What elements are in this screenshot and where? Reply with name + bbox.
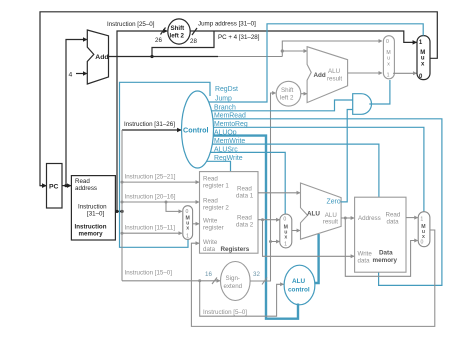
- svg-text:Jump: Jump: [215, 96, 232, 103]
- svg-text:Instruction [15–0]: Instruction [15–0]: [125, 270, 173, 277]
- svg-text:MemRead: MemRead: [214, 113, 246, 120]
- oval: Control unit: [182, 91, 214, 168]
- wire: branch adder output to branch mux input 1: [348, 72, 382, 74]
- svg-text:Add: Add: [314, 72, 326, 79]
- control signal: RegWrite: [207, 161, 231, 171]
- svg-text:RegWrite: RegWrite: [214, 155, 243, 162]
- svg-text:Shift: Shift: [171, 25, 185, 32]
- control signal: ALUOp (2-bit): [213, 136, 298, 319]
- svg-text:Jump address [31–0]: Jump address [31–0]: [198, 21, 256, 28]
- wire: PC output to instruction memory read address: [62, 185, 71, 187]
- wire: PC+4 into branch adder top input: [282, 50, 307, 52]
- wire: sign-extend output to ALUSrc mux input 1: [250, 242, 279, 282]
- svg-text:Write: Write: [203, 239, 218, 246]
- wire: Instruction [25-0] up to shift left 2: [117, 31, 167, 211]
- svg-text:PC + 4 [31–28]: PC + 4 [31–28]: [218, 34, 260, 41]
- wire: AND output to branch mux select: [369, 80, 390, 104]
- svg-text:x: x: [387, 61, 390, 67]
- svg-text:28: 28: [190, 38, 197, 45]
- instruction memory: [71, 176, 115, 240]
- svg-text:Read: Read: [203, 176, 218, 183]
- wire: PC+4 [31-28] merge into jump address: [152, 31, 214, 57]
- node: instruction bus junction (left): [115, 210, 118, 213]
- svg-text:ALU: ALU: [292, 278, 306, 285]
- mux: ALUSrc: [280, 214, 292, 248]
- svg-text:result: result: [323, 218, 338, 225]
- control signal: Branch: [212, 100, 353, 111]
- svg-text:1: 1: [420, 217, 423, 223]
- wire: ALU result to data memory address: [341, 217, 354, 219]
- wire: read data 2 down to data memory write data: [263, 220, 355, 257]
- slash: 28-bit tick: [192, 28, 197, 35]
- wire: Instruction [20-16] to read register 2: [122, 201, 199, 203]
- svg-text:register 1: register 1: [203, 183, 229, 190]
- svg-text:data: data: [358, 258, 371, 265]
- svg-text:Read: Read: [237, 215, 252, 222]
- svg-text:Instruction [31–26]: Instruction [31–26]: [124, 121, 175, 128]
- svg-text:x: x: [186, 226, 189, 232]
- svg-text:data: data: [387, 219, 400, 226]
- wire: ALUSrc mux output to ALU: [292, 230, 300, 232]
- wire: Instruction [25-21] to read register 1: [122, 181, 199, 183]
- svg-text:16: 16: [205, 271, 212, 278]
- svg-text:result: result: [327, 76, 342, 83]
- wire: data memory read data to final mux input 1: [406, 217, 418, 219]
- wire: PC+4 riser to branch adder and branch mux: [282, 41, 382, 57]
- wire: Instruction [20-16] branch to RegDst mux input 0: [166, 202, 182, 211]
- oval: Sign-extend: [221, 262, 251, 301]
- node: instruction bus junction (right): [120, 210, 123, 213]
- svg-text:1: 1: [387, 73, 390, 79]
- svg-text:[31–0]: [31–0]: [87, 211, 104, 218]
- svg-text:MemWrite: MemWrite: [214, 138, 245, 145]
- wire: Zero output up to AND gate: [341, 110, 353, 202]
- mux: RegDst (write register): [183, 206, 193, 240]
- svg-text:Read: Read: [237, 186, 252, 193]
- svg-text:0: 0: [386, 39, 389, 45]
- svg-text:extend: extend: [224, 283, 243, 290]
- control signal: Jump: [209, 24, 424, 102]
- registers block: [200, 172, 259, 254]
- svg-text:ALUOp: ALUOp: [214, 130, 237, 137]
- control signal: RegDst wrap-around to write-register mux: [120, 82, 211, 247]
- svg-text:Read: Read: [203, 198, 218, 205]
- svg-text:Instruction: Instruction: [75, 224, 107, 231]
- wire: read data 2 to ALUSrc mux input 0: [258, 219, 279, 221]
- PC register: [47, 164, 63, 209]
- wire: RegDst mux output to write register: [193, 223, 199, 225]
- svg-text:Read: Read: [75, 178, 90, 185]
- node: PC+4 junction: [150, 55, 153, 58]
- svg-text:data 2: data 2: [236, 222, 254, 229]
- svg-text:Read: Read: [386, 212, 401, 219]
- svg-text:32: 32: [253, 271, 260, 278]
- svg-text:0: 0: [421, 239, 424, 245]
- svg-text:MemtoReg: MemtoReg: [214, 121, 248, 128]
- control signal: ALUSrc: [210, 152, 285, 214]
- wire: jump mux output wrap-around to PC input: [40, 12, 437, 186]
- wire: ALU control output to ALU: [315, 234, 319, 283]
- control signal: MemtoReg: [214, 127, 424, 211]
- node: PC+4 branch junction: [281, 49, 284, 52]
- wire: PC value up to Add (PC+4): [66, 40, 87, 186]
- mux: branch (PCSrc): [383, 36, 394, 79]
- wire: ALU result wrap to final mux input 0: [345, 218, 417, 276]
- adder Add (PC+4): [87, 30, 108, 84]
- control signal: MemRead: [213, 119, 442, 286]
- oval: Shift left 2 (jump): [168, 19, 190, 44]
- svg-text:Address: Address: [358, 215, 381, 222]
- svg-text:left 2: left 2: [280, 95, 294, 102]
- gate: AND (branch and zero): [353, 94, 372, 115]
- svg-text:Data: Data: [379, 250, 393, 257]
- svg-text:x: x: [284, 234, 287, 240]
- svg-text:Write: Write: [358, 251, 373, 258]
- svg-text:4: 4: [69, 72, 73, 79]
- mux: jump: [417, 36, 430, 80]
- wire: Instruction [5-0] to ALU control: [200, 281, 284, 316]
- wire: instruction bus vertical: [121, 130, 123, 281]
- svg-text:memory: memory: [373, 257, 398, 264]
- svg-text:Zero: Zero: [327, 199, 341, 206]
- wire: Instruction [15-0] to sign extend: [122, 280, 220, 282]
- svg-text:Instruction [25–21]: Instruction [25–21]: [125, 174, 176, 181]
- node: PC output junction: [64, 184, 67, 187]
- wire: read data 1 to ALU: [258, 192, 300, 194]
- svg-text:PC: PC: [49, 184, 59, 191]
- svg-text:26: 26: [155, 37, 162, 44]
- svg-text:ALUSrc: ALUSrc: [214, 146, 238, 153]
- svg-text:register: register: [203, 225, 224, 232]
- svg-text:Branch: Branch: [214, 105, 236, 112]
- svg-text:1: 1: [186, 233, 189, 239]
- svg-text:Instruction [5–0]: Instruction [5–0]: [203, 309, 247, 316]
- control signal: MemWrite: [212, 144, 379, 197]
- svg-text:0: 0: [283, 217, 286, 223]
- wire: jump address to jump mux: [190, 31, 416, 42]
- svg-text:Add: Add: [95, 54, 108, 61]
- svg-text:register 2: register 2: [203, 205, 229, 212]
- svg-text:Registers: Registers: [221, 246, 250, 253]
- wire: Instruction [15-11] to RegDst mux input 1: [122, 232, 182, 234]
- wire: sign-extend value up to shift left 2: [271, 93, 276, 242]
- mux: MemtoReg (final): [418, 212, 430, 247]
- svg-text:Write: Write: [203, 218, 218, 225]
- svg-text:ALU: ALU: [307, 210, 320, 217]
- wire: final mux output wrap-around to registers write data: [191, 230, 434, 326]
- svg-text:data: data: [203, 246, 216, 253]
- svg-text:0: 0: [186, 209, 189, 215]
- data memory block: [355, 197, 406, 272]
- wire: branch mux output to jump mux input 0: [393, 72, 416, 74]
- oval: Shift left 2 (branch): [276, 81, 301, 106]
- svg-text:left 2: left 2: [170, 33, 185, 40]
- svg-text:Instruction: Instruction: [78, 204, 107, 211]
- wire: instruction memory output stub: [115, 210, 122, 212]
- svg-text:RegDst: RegDst: [215, 86, 238, 93]
- svg-text:Instruction [20–16]: Instruction [20–16]: [125, 194, 176, 201]
- svg-text:1: 1: [284, 242, 287, 248]
- svg-text:Shift: Shift: [281, 87, 294, 94]
- wire: Instruction [31-26] into Control: [122, 129, 181, 131]
- svg-text:memory: memory: [79, 231, 104, 238]
- svg-text:ALU: ALU: [328, 68, 340, 75]
- svg-text:Control: Control: [183, 126, 209, 135]
- svg-text:Sign-: Sign-: [226, 275, 240, 282]
- wire: Add output (PC+4): [109, 56, 219, 58]
- ALU: [301, 183, 342, 239]
- slash: 26-bit tick: [161, 28, 166, 35]
- svg-text:data 1: data 1: [236, 193, 254, 200]
- oval: ALU control: [284, 265, 315, 305]
- svg-text:Instruction [25–0]: Instruction [25–0]: [107, 21, 155, 28]
- wire: shift left 2 to branch adder bottom input: [301, 93, 307, 95]
- adder Add (branch target): [307, 47, 348, 103]
- svg-text:address: address: [75, 185, 97, 192]
- svg-text:Instruction [15–11]: Instruction [15–11]: [125, 225, 176, 232]
- svg-text:control: control: [288, 287, 310, 294]
